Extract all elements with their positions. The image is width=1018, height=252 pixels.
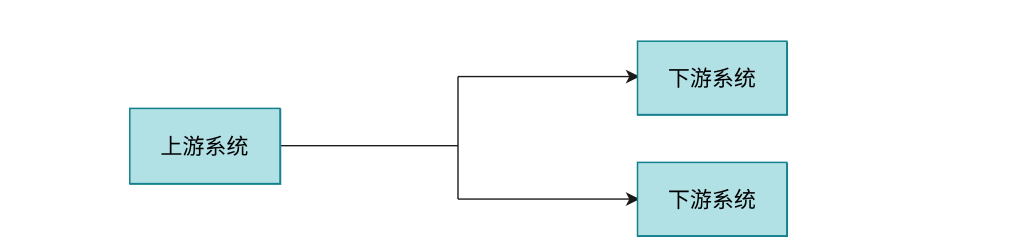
box: bottom downstream system 下游系统 <box>638 162 787 235</box>
arrowhead into bottom downstream box <box>627 193 639 205</box>
wire: junction to bottom downstream box <box>458 198 630 200</box>
box: top downstream system 下游系统 <box>638 41 787 114</box>
label: 下游系统 bottom (downstream system) <box>669 189 755 209</box>
label: 上游系统 (upstream system) <box>162 136 248 156</box>
arrowhead into top downstream box <box>627 71 639 83</box>
wire: vertical junction segment <box>457 77 459 200</box>
box: upstream system 上游系统 <box>130 108 280 183</box>
wire: upstream box to junction <box>281 145 459 147</box>
label: 下游系统 top (downstream system) <box>669 67 755 87</box>
wire: junction to top downstream box <box>458 76 630 78</box>
